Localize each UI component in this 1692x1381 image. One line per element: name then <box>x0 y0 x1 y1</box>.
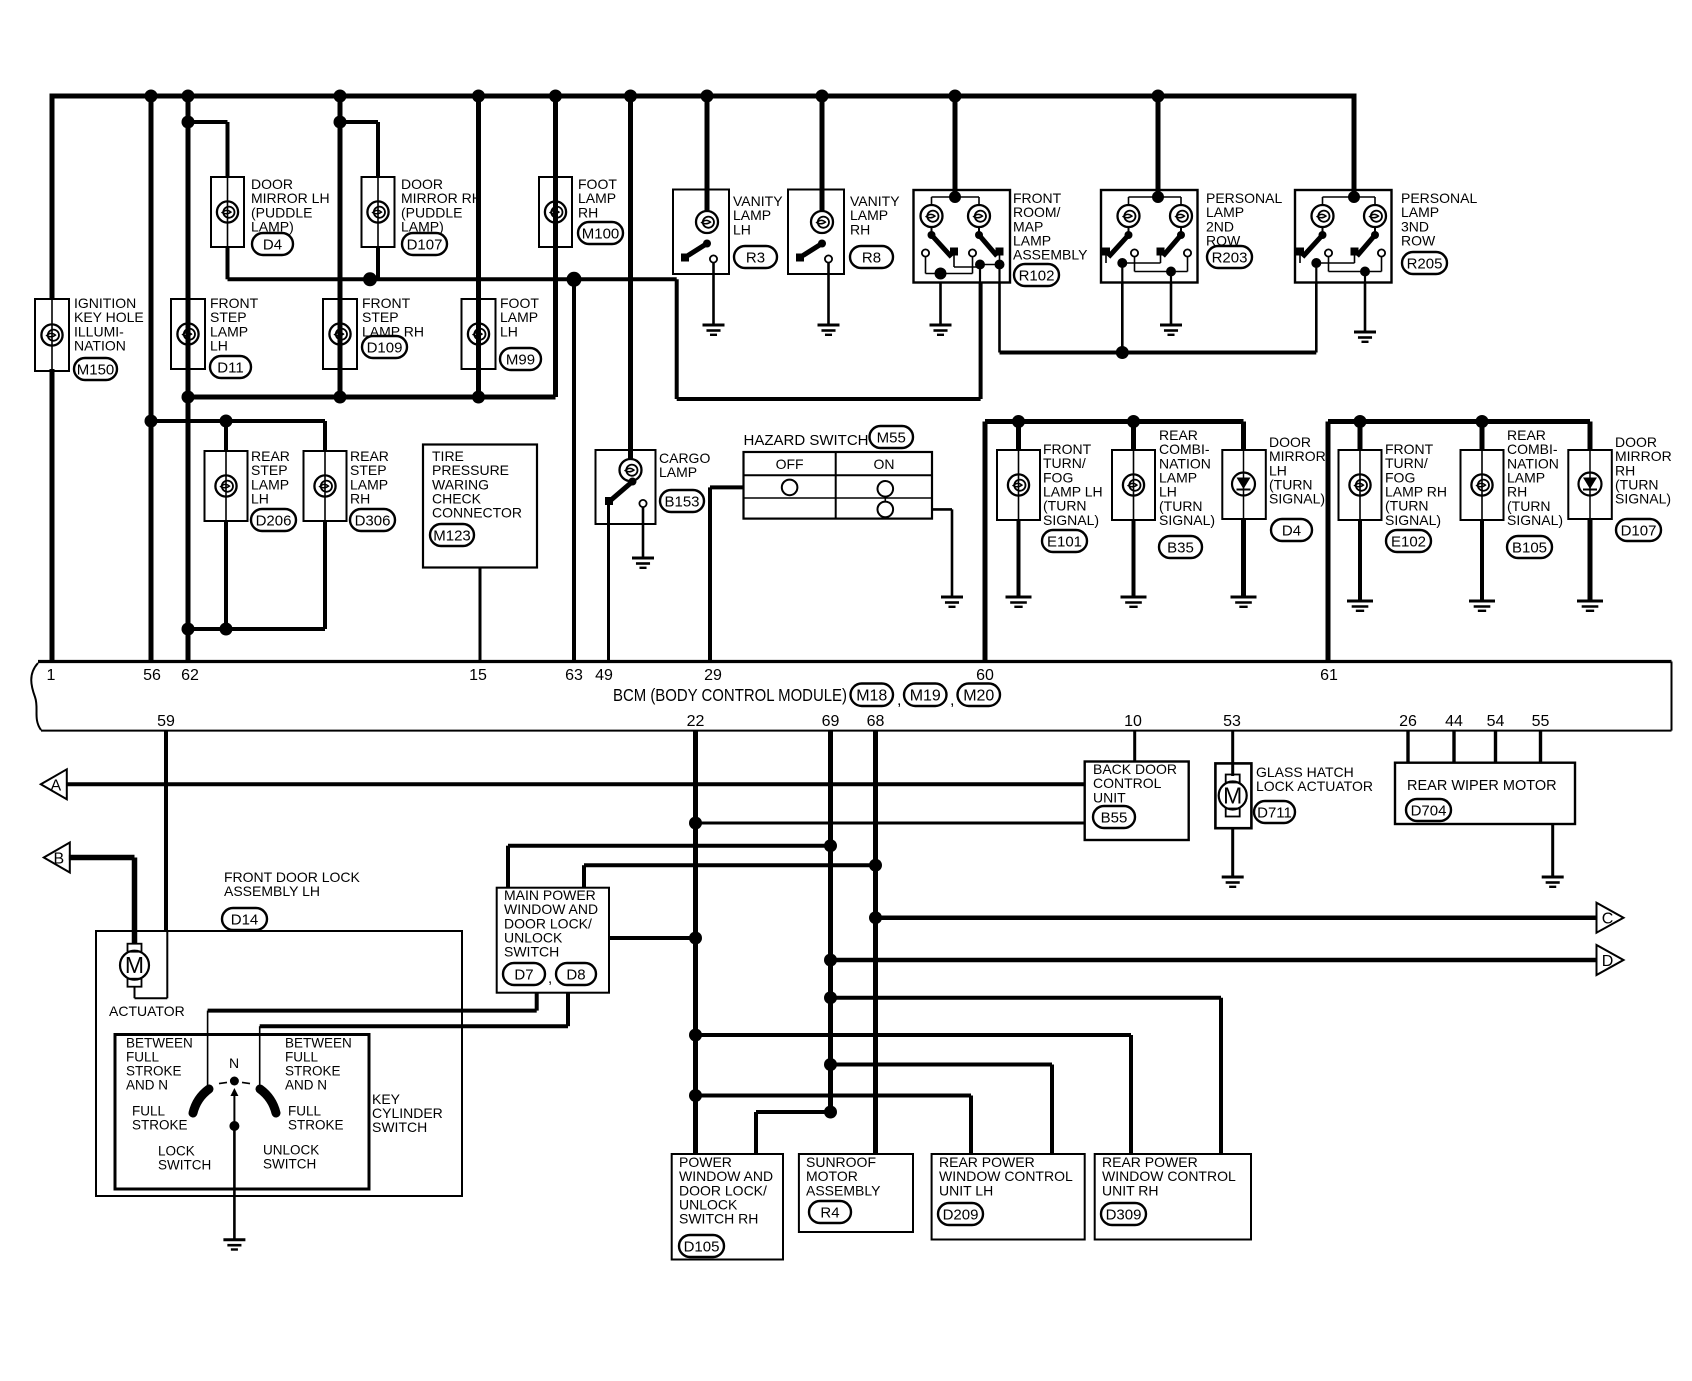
svg-text:D7: D7 <box>514 966 533 983</box>
svg-text:RH: RH <box>350 491 370 507</box>
svg-text:UNLOCK: UNLOCK <box>263 1143 319 1158</box>
svg-text:62: 62 <box>181 667 199 684</box>
svg-text:AND N: AND N <box>126 1078 168 1093</box>
svg-text:UNIT RH: UNIT RH <box>1102 1182 1159 1198</box>
svg-text:R8: R8 <box>862 249 881 266</box>
svg-text:M: M <box>1223 783 1242 809</box>
svg-text:60: 60 <box>976 667 994 684</box>
svg-text:D107: D107 <box>407 236 443 253</box>
svg-text:RH: RH <box>850 221 870 237</box>
svg-text:D4: D4 <box>263 236 282 253</box>
svg-text:C: C <box>1602 911 1614 928</box>
svg-text:SIGNAL): SIGNAL) <box>1159 512 1215 528</box>
svg-text:SIGNAL): SIGNAL) <box>1507 512 1563 528</box>
svg-text:M55: M55 <box>877 429 906 446</box>
svg-text:D: D <box>1602 953 1614 970</box>
svg-text:M99: M99 <box>506 351 535 368</box>
svg-text:FULL: FULL <box>288 1104 322 1119</box>
svg-text:SWITCH: SWITCH <box>504 944 559 960</box>
svg-text:D109: D109 <box>367 339 403 356</box>
svg-text:M123: M123 <box>433 527 471 544</box>
svg-text:UNIT LH: UNIT LH <box>939 1182 993 1198</box>
svg-text:,: , <box>950 692 954 709</box>
svg-text:M18: M18 <box>856 688 887 705</box>
svg-text:UNIT: UNIT <box>1093 789 1126 805</box>
svg-text:STROKE: STROKE <box>285 1064 341 1079</box>
svg-text:REAR WIPER MOTOR: REAR WIPER MOTOR <box>1407 778 1557 794</box>
svg-text:E101: E101 <box>1047 533 1082 550</box>
svg-text:D105: D105 <box>684 1238 720 1255</box>
svg-text:M: M <box>125 952 144 978</box>
svg-text:HAZARD SWITCH: HAZARD SWITCH <box>744 432 869 449</box>
svg-text:54: 54 <box>1487 713 1505 730</box>
svg-text:B35: B35 <box>1167 539 1194 556</box>
svg-text:D306: D306 <box>355 512 391 529</box>
svg-text:55: 55 <box>1532 713 1550 730</box>
svg-text:FULL: FULL <box>132 1104 166 1119</box>
svg-text:STROKE: STROKE <box>288 1118 344 1133</box>
svg-text:M100: M100 <box>582 225 620 242</box>
svg-text:FULL: FULL <box>285 1050 319 1065</box>
svg-text:OFF: OFF <box>776 456 804 472</box>
svg-text:22: 22 <box>687 713 705 730</box>
svg-text:BETWEEN: BETWEEN <box>285 1036 352 1051</box>
svg-text:D309: D309 <box>1106 1206 1142 1223</box>
svg-text:68: 68 <box>867 713 885 730</box>
svg-text:R3: R3 <box>746 249 765 266</box>
svg-text:M19: M19 <box>910 688 941 705</box>
svg-text:26: 26 <box>1399 713 1417 730</box>
svg-text:LOCK ACTUATOR: LOCK ACTUATOR <box>1256 778 1373 794</box>
svg-text:D711: D711 <box>1257 804 1292 821</box>
svg-text:,: , <box>548 970 552 987</box>
svg-text:D704: D704 <box>1411 802 1447 819</box>
svg-text:R4: R4 <box>820 1204 839 1221</box>
svg-text:15: 15 <box>469 667 487 684</box>
svg-text:61: 61 <box>1320 667 1338 684</box>
svg-text:CONNECTOR: CONNECTOR <box>432 505 522 521</box>
svg-text:BETWEEN: BETWEEN <box>126 1036 193 1051</box>
svg-text:ROW: ROW <box>1401 233 1436 249</box>
svg-text:ASSEMBLY: ASSEMBLY <box>1013 247 1088 263</box>
svg-text:STROKE: STROKE <box>126 1064 182 1079</box>
svg-text:SWITCH: SWITCH <box>372 1119 427 1135</box>
svg-text:AND N: AND N <box>285 1078 327 1093</box>
svg-text:D209: D209 <box>943 1206 979 1223</box>
svg-text:STROKE: STROKE <box>132 1118 188 1133</box>
svg-text:ASSEMBLY LH: ASSEMBLY LH <box>224 883 320 899</box>
svg-text:SWITCH: SWITCH <box>158 1158 211 1173</box>
svg-text:LH: LH <box>500 323 518 339</box>
svg-text:SIGNAL): SIGNAL) <box>1043 512 1099 528</box>
svg-text:53: 53 <box>1223 713 1241 730</box>
svg-text:10: 10 <box>1124 713 1142 730</box>
svg-text:BCM (BODY CONTROL MODULE): BCM (BODY CONTROL MODULE) <box>613 685 847 705</box>
svg-text:SIGNAL): SIGNAL) <box>1385 512 1441 528</box>
svg-text:B: B <box>53 851 64 868</box>
svg-text:ACTUATOR: ACTUATOR <box>109 1003 185 1019</box>
svg-text:LH: LH <box>210 338 228 354</box>
svg-text:LOCK: LOCK <box>158 1144 195 1159</box>
svg-text:D11: D11 <box>217 359 243 376</box>
svg-text:LH: LH <box>251 491 269 507</box>
svg-text:M20: M20 <box>963 688 994 705</box>
svg-text:1: 1 <box>47 667 56 684</box>
svg-text:,: , <box>897 692 901 709</box>
svg-text:D8: D8 <box>566 966 585 983</box>
svg-text:NATION: NATION <box>74 338 126 354</box>
svg-text:44: 44 <box>1445 713 1463 730</box>
svg-text:SWITCH: SWITCH <box>263 1157 316 1172</box>
svg-text:SIGNAL): SIGNAL) <box>1615 491 1671 507</box>
svg-text:RH: RH <box>578 204 598 220</box>
svg-text:D14: D14 <box>231 911 259 928</box>
svg-text:R205: R205 <box>1407 255 1443 272</box>
svg-text:63: 63 <box>565 667 583 684</box>
svg-text:56: 56 <box>143 667 161 684</box>
svg-text:ON: ON <box>874 456 895 472</box>
svg-text:B105: B105 <box>1512 539 1547 556</box>
svg-text:B55: B55 <box>1101 809 1128 826</box>
svg-text:ASSEMBLY: ASSEMBLY <box>806 1182 881 1198</box>
svg-text:LAMP: LAMP <box>659 464 697 480</box>
svg-text:59: 59 <box>157 713 175 730</box>
svg-text:SWITCH RH: SWITCH RH <box>679 1211 758 1227</box>
svg-text:R102: R102 <box>1019 267 1055 284</box>
svg-text:FULL: FULL <box>126 1050 160 1065</box>
svg-text:R203: R203 <box>1212 249 1248 266</box>
svg-text:E102: E102 <box>1391 533 1426 550</box>
svg-text:29: 29 <box>704 667 722 684</box>
svg-text:SIGNAL): SIGNAL) <box>1269 491 1325 507</box>
svg-text:A: A <box>50 777 61 794</box>
svg-text:49: 49 <box>595 667 613 684</box>
svg-text:D107: D107 <box>1621 522 1657 539</box>
svg-text:D206: D206 <box>256 512 292 529</box>
svg-text:LH: LH <box>733 221 751 237</box>
svg-text:M150: M150 <box>77 361 115 378</box>
svg-text:69: 69 <box>822 713 840 730</box>
svg-text:N: N <box>229 1055 239 1071</box>
svg-text:D4: D4 <box>1282 522 1301 539</box>
svg-text:B153: B153 <box>664 493 699 510</box>
